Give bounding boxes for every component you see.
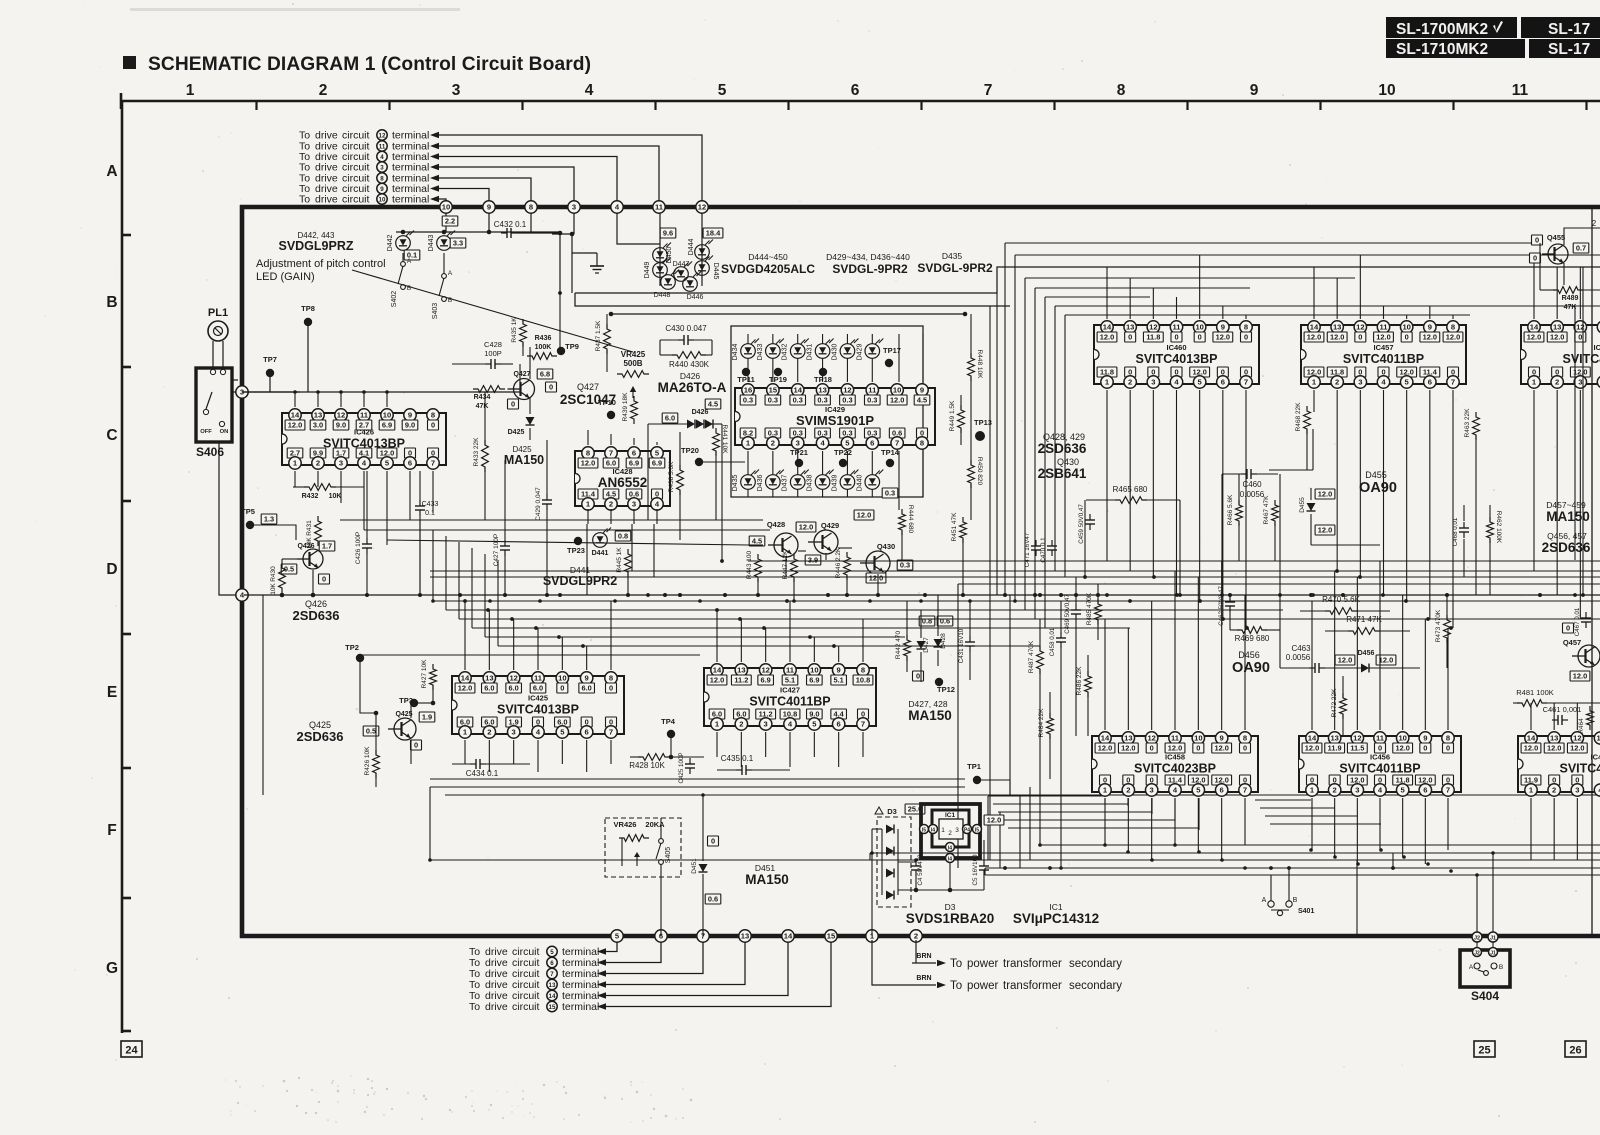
svg-text:F: F [107, 822, 116, 839]
svg-text:R430: R430 [270, 566, 277, 582]
wire [396, 231, 560, 233]
led D430 [840, 344, 855, 359]
test point TP7 [266, 369, 274, 377]
wire [1564, 228, 1600, 245]
svg-text:8: 8 [1446, 734, 1450, 743]
svg-text:D438: D438 [807, 475, 814, 492]
boxed value 6.8 [537, 369, 553, 379]
switch S401 [1268, 901, 1274, 907]
switch S406 [196, 368, 232, 442]
svg-text:0.3: 0.3 [743, 396, 753, 405]
wire [1581, 289, 1600, 291]
resistor R450 820 [968, 460, 975, 488]
svg-text:TP13: TP13 [974, 418, 992, 427]
junction dots bottom nest [1103, 843, 1107, 847]
svg-text:14: 14 [1103, 323, 1112, 332]
svg-text:25: 25 [1478, 1045, 1490, 1057]
model label box SL-17 right [1521, 17, 1600, 38]
led D449 [653, 263, 668, 278]
led D447 [674, 267, 689, 282]
svg-text:SVIMS1901P: SVIMS1901P [796, 413, 874, 428]
svg-text:8: 8 [1117, 82, 1126, 99]
svg-text:D3: D3 [887, 807, 897, 816]
svg-text:8: 8 [609, 674, 613, 683]
svg-text:S404: S404 [1471, 989, 1499, 1003]
svg-text:12.0: 12.0 [1318, 526, 1332, 535]
svg-text:12.0: 12.0 [458, 684, 472, 693]
svg-text:0: 0 [549, 383, 553, 392]
svg-text:8: 8 [529, 203, 533, 212]
svg-text:0: 0 [1358, 333, 1362, 342]
svg-text:To: To [299, 194, 310, 206]
svg-text:11: 11 [1172, 323, 1181, 332]
svg-text:R428 10K: R428 10K [629, 761, 665, 770]
svg-text:0: 0 [1535, 236, 1539, 245]
svg-text:C469 50V0,47: C469 50V0,47 [1064, 594, 1071, 634]
capacitor C425 100P [689, 758, 691, 764]
svg-text:3: 3 [1575, 786, 1579, 795]
wire bus [575, 293, 1010, 306]
wire [617, 213, 660, 244]
wire bus [958, 583, 1600, 585]
wire [702, 795, 704, 861]
svg-text:6.0: 6.0 [509, 684, 519, 693]
board border top [240, 205, 1600, 210]
svg-text:R469 680: R469 680 [1235, 634, 1270, 643]
svg-text:C433: C433 [422, 501, 439, 508]
svg-text:TP8: TP8 [301, 304, 315, 313]
svg-text:2: 2 [1335, 378, 1339, 387]
diode D3-3 [886, 869, 894, 878]
wire riser [458, 542, 460, 619]
capacitor C426 100P [366, 538, 368, 544]
wire bus [870, 852, 1600, 854]
svg-text:9: 9 [1250, 82, 1259, 99]
capacitor C468 0.01 [1463, 522, 1465, 528]
wire [1489, 539, 1491, 595]
svg-text:24: 24 [125, 1045, 138, 1057]
capacitor C434 0.1 [470, 763, 476, 765]
svg-text:terminal: terminal [562, 1001, 599, 1013]
svg-text:D442: D442 [387, 235, 394, 252]
svg-text:0.3: 0.3 [885, 489, 895, 498]
svg-text:S402: S402 [391, 291, 398, 307]
left ruler tick [122, 500, 131, 503]
svg-text:7: 7 [895, 439, 899, 448]
svg-text:12.0: 12.0 [1098, 744, 1112, 753]
svg-text:SVDGL-9PR2: SVDGL-9PR2 [917, 261, 993, 275]
svg-text:PL1: PL1 [208, 307, 228, 319]
svg-text:6.0: 6.0 [665, 414, 675, 423]
svg-text:I4: I4 [931, 828, 935, 834]
svg-text:0: 0 [1566, 624, 1570, 633]
wire [797, 451, 799, 475]
wire [445, 213, 447, 232]
svg-text:SL-1710MK2: SL-1710MK2 [1396, 41, 1488, 58]
svg-text:R437 1.5K: R437 1.5K [595, 320, 602, 351]
ruler minor tick [787, 101, 789, 110]
node 4 on left border [236, 589, 248, 601]
svg-text:SVDGL9PRZ: SVDGL9PRZ [278, 239, 353, 253]
pointer line [352, 270, 633, 352]
svg-text:3: 3 [1150, 786, 1154, 795]
svg-text:terminal: terminal [392, 194, 429, 206]
led D438 [815, 475, 830, 490]
resistor R472 22K [1340, 693, 1347, 719]
svg-text:3.9: 3.9 [808, 556, 818, 565]
resistor R463 22K [1473, 412, 1480, 440]
boxed value 12.0 [1315, 525, 1335, 535]
ruler minor tick [1053, 101, 1055, 110]
svg-text:SCHEMATIC DIAGRAM 1 (Control C: SCHEMATIC DIAGRAM 1 (Control Circuit Boa… [148, 54, 591, 75]
svg-text:C: C [106, 427, 117, 444]
diode D3-4 [886, 891, 894, 900]
svg-text:0.8: 0.8 [922, 617, 932, 626]
svg-text:0.3: 0.3 [842, 396, 852, 405]
svg-text:3: 3 [796, 439, 800, 448]
boxed value 0.8 [919, 616, 935, 626]
svg-text:I5: I5 [975, 828, 979, 834]
wire [1545, 702, 1600, 704]
wire bus [985, 874, 1600, 876]
wire riser [432, 530, 434, 601]
wire [294, 471, 296, 487]
svg-text:0: 0 [322, 575, 326, 584]
svg-text:SVITC4023BP: SVITC4023BP [1134, 762, 1216, 776]
svg-text:ON: ON [220, 429, 229, 435]
svg-text:C467 0,01: C467 0,01 [1574, 607, 1581, 636]
transistor Q427 [514, 379, 535, 400]
capacitor C433 0.1 [419, 500, 421, 506]
svg-text:drive: drive [485, 1001, 508, 1013]
svg-text:9.0: 9.0 [336, 421, 346, 430]
svg-text:C434 0.1: C434 0.1 [466, 769, 499, 778]
svg-text:6: 6 [408, 459, 412, 468]
svg-text:0: 0 [1244, 333, 1248, 342]
led D448 [661, 275, 676, 290]
svg-text:14: 14 [1530, 323, 1539, 332]
wire L-connectors below IC456 [1255, 799, 1311, 801]
wire [606, 938, 617, 952]
svg-text:R481 100K: R481 100K [1516, 688, 1554, 697]
wire [517, 233, 560, 293]
svg-text:D436: D436 [757, 475, 764, 492]
wire [1104, 619, 1106, 730]
svg-text:R432: R432 [302, 493, 319, 500]
svg-text:B: B [448, 297, 452, 304]
led D445 [695, 261, 710, 276]
svg-text:1.9: 1.9 [422, 713, 432, 722]
ruler minor tick [1452, 101, 1454, 110]
svg-text:transformer: transformer [1003, 958, 1062, 970]
svg-text:R443 100: R443 100 [746, 551, 753, 580]
wire [772, 451, 774, 475]
capacitor C469 50V0.47 [1075, 604, 1077, 610]
svg-text:14: 14 [784, 932, 793, 941]
svg-text:B: B [1499, 964, 1503, 971]
svg-text:2: 2 [1552, 786, 1556, 795]
wire [606, 938, 661, 963]
svg-text:G: G [106, 960, 118, 977]
wire [1392, 853, 1394, 868]
svg-text:6: 6 [837, 720, 841, 729]
transistor Q425 [394, 718, 416, 740]
svg-text:13: 13 [1550, 734, 1558, 743]
svg-text:R486 22K: R486 22K [1076, 666, 1083, 696]
svg-text:15: 15 [827, 932, 836, 941]
svg-text:10: 10 [1398, 734, 1406, 743]
svg-text:Q427: Q427 [513, 371, 530, 378]
wire bus [1035, 287, 1250, 289]
wire bus [433, 600, 1600, 602]
svg-text:A: A [407, 258, 412, 265]
svg-text:R431: R431 [306, 520, 313, 536]
diode bridge D3 dashed box [877, 817, 911, 907]
led D437 [790, 475, 805, 490]
boxed value 0.5 [363, 726, 379, 736]
wire [587, 430, 589, 445]
svg-text:12: 12 [379, 133, 386, 140]
resistor R445 1K [625, 549, 632, 577]
wire [606, 938, 703, 974]
wire [1574, 306, 1576, 560]
svg-text:6: 6 [585, 728, 589, 737]
left ruler tick [122, 633, 131, 636]
svg-text:3: 3 [1358, 378, 1362, 387]
svg-text:IC427: IC427 [780, 686, 800, 695]
svg-text:26: 26 [1569, 1045, 1581, 1057]
wire [906, 601, 908, 640]
svg-text:11.9: 11.9 [1328, 744, 1342, 753]
test point TP10 [607, 411, 615, 419]
svg-text:Q455: Q455 [1547, 233, 1565, 242]
svg-text:A: A [106, 163, 117, 180]
svg-text:7: 7 [431, 459, 435, 468]
svg-text:S401: S401 [1298, 908, 1314, 915]
IC425 SVITC4013BP [452, 676, 624, 734]
wire [871, 334, 873, 344]
wire [660, 339, 678, 341]
svg-text:0: 0 [1446, 744, 1450, 753]
svg-text:SVITC4013BP: SVITC4013BP [1136, 352, 1218, 366]
test point TP4 [667, 730, 675, 738]
svg-text:0.0056: 0.0056 [1286, 653, 1311, 662]
svg-text:14: 14 [793, 386, 802, 395]
svg-text:2: 2 [319, 82, 328, 99]
wire [418, 702, 433, 704]
svg-text:10K: 10K [270, 583, 277, 595]
diode D456 [1361, 664, 1369, 673]
svg-text:9: 9 [837, 666, 841, 675]
wire [232, 391, 236, 393]
wire [630, 756, 641, 758]
left ruler line [121, 101, 124, 1033]
wire bus [748, 560, 1600, 562]
ruler minor tick [654, 101, 656, 110]
svg-text:12: 12 [698, 203, 706, 212]
svg-text:C430 0.047: C430 0.047 [665, 324, 707, 333]
svg-text:MA150: MA150 [745, 872, 789, 887]
svg-text:R466 5.6K: R466 5.6K [1227, 494, 1234, 525]
resistor R462 100K [1487, 517, 1494, 543]
diode D425 [526, 417, 535, 425]
IC460 SVITC4013BP [1094, 325, 1259, 384]
ruler minor tick [920, 101, 922, 110]
svg-text:SL-17: SL-17 [1548, 41, 1590, 58]
svg-text:D440: D440 [856, 475, 863, 492]
svg-text:0: 0 [609, 684, 613, 693]
svg-text:11.8: 11.8 [1146, 333, 1160, 342]
svg-text:IC455: IC455 [1590, 753, 1600, 762]
svg-text:R465 680: R465 680 [1113, 485, 1148, 494]
IC1 SVIuPC14312 nested frame [921, 804, 980, 858]
svg-text:drive: drive [315, 194, 338, 206]
boxed value 12.0 [1570, 671, 1590, 681]
wire [846, 451, 848, 475]
svg-text:TP4: TP4 [661, 717, 676, 726]
svg-text:18.4: 18.4 [706, 229, 721, 238]
resistor R439 18K [631, 396, 638, 424]
ruler minor tick [388, 101, 390, 110]
svg-text:R489: R489 [1562, 295, 1579, 302]
svg-text:0.8: 0.8 [618, 532, 628, 541]
svg-text:6.9: 6.9 [809, 676, 819, 685]
svg-text:12.0: 12.0 [1121, 744, 1135, 753]
svg-text:C435 0.1: C435 0.1 [721, 754, 754, 763]
wire [439, 157, 617, 206]
svg-text:0.7: 0.7 [1576, 244, 1586, 253]
svg-text:SVITC4011BP: SVITC4011BP [1343, 352, 1424, 366]
svg-text:11.2: 11.2 [734, 676, 748, 685]
svg-text:9.0: 9.0 [405, 421, 415, 430]
wire [282, 558, 297, 560]
resistor R466 5.6K [1236, 500, 1243, 526]
boxed value 0.3 [897, 560, 913, 570]
svg-text:9: 9 [585, 674, 589, 683]
svg-text:11: 11 [655, 203, 664, 212]
svg-text:16: 16 [744, 386, 752, 395]
wire [1229, 612, 1231, 630]
resistor R451 47K [960, 517, 967, 543]
svg-text:C426 100P: C426 100P [355, 532, 362, 565]
IC1 pins [920, 825, 929, 834]
wire [606, 938, 831, 1007]
svg-text:D456: D456 [1358, 650, 1375, 657]
capacitor C471 16V47 [1035, 540, 1037, 546]
svg-text:D455: D455 [1365, 470, 1387, 480]
svg-text:R468 22K: R468 22K [1295, 402, 1302, 432]
svg-text:BRN: BRN [916, 975, 931, 982]
svg-text:15: 15 [769, 386, 778, 395]
svg-text:12: 12 [1356, 323, 1364, 332]
svg-text:4.5: 4.5 [708, 400, 718, 409]
svg-text:TP3: TP3 [399, 696, 413, 705]
svg-text:6: 6 [1221, 378, 1225, 387]
junction dots on bus 595 [280, 593, 284, 597]
left ruler tick [122, 234, 131, 237]
svg-text:VR426: VR426 [614, 820, 637, 829]
capacitor C458 0.01 [1060, 632, 1062, 638]
IC458 SVITC4023BP [1092, 736, 1258, 792]
svg-text:0: 0 [916, 672, 920, 681]
led D433 [766, 344, 781, 359]
wire [1238, 522, 1240, 561]
resistor R489 47K [1553, 287, 1583, 294]
wire [1311, 601, 1313, 730]
svg-text:0.3: 0.3 [793, 396, 803, 405]
svg-text:R471 47K: R471 47K [1346, 615, 1382, 624]
resistor R440 430K [672, 352, 706, 359]
svg-text:13: 13 [737, 666, 745, 675]
svg-text:SVIμPC14312: SVIμPC14312 [1013, 911, 1099, 926]
board border bottom [240, 934, 1600, 939]
resistor R487 470K [1037, 646, 1044, 674]
wire riser [471, 548, 473, 628]
svg-text:10: 10 [383, 411, 391, 420]
test point TP13 [975, 431, 985, 441]
resistor R464 100K [1587, 706, 1594, 730]
svg-text:10: 10 [379, 197, 386, 204]
wire [439, 167, 574, 205]
svg-text:3: 3 [572, 203, 576, 212]
svg-text:0: 0 [511, 400, 515, 409]
wire bus [472, 627, 1130, 629]
svg-text:0: 0 [1128, 333, 1132, 342]
svg-text:SVITC4011BP: SVITC4011BP [1339, 762, 1420, 776]
svg-text:R447 12K: R447 12K [782, 550, 789, 580]
svg-text:OFF: OFF [200, 429, 212, 435]
svg-text:7: 7 [984, 82, 993, 99]
boxed value 0 [708, 836, 719, 846]
svg-text:J2: J2 [1474, 951, 1480, 957]
svg-text:12.0: 12.0 [1423, 333, 1437, 342]
wire [1222, 473, 1241, 475]
svg-text:20KA: 20KA [645, 820, 665, 829]
test point TP2 [356, 654, 364, 662]
svg-text:C463: C463 [1291, 644, 1311, 653]
svg-text:12.0: 12.0 [1524, 744, 1538, 753]
svg-text:TP5: TP5 [241, 507, 255, 516]
wire [659, 213, 661, 286]
transistor Q430 [866, 551, 890, 575]
svg-text:13: 13 [1330, 734, 1338, 743]
svg-text:9: 9 [920, 386, 924, 395]
svg-text:BRN: BRN [916, 953, 931, 960]
svg-text:14: 14 [1308, 734, 1317, 743]
transistor Q426 [303, 549, 323, 569]
svg-text:6: 6 [851, 82, 860, 99]
svg-text:Q430: Q430 [877, 542, 895, 551]
IC428 AN6552 [575, 451, 670, 506]
transistor Q428 [774, 533, 798, 557]
wire [522, 320, 524, 324]
resistor R441 10K [713, 428, 720, 456]
svg-text:R433 22K: R433 22K [473, 437, 480, 467]
capacitor C459 50V0,47 [1089, 514, 1091, 520]
svg-text:R485 470K: R485 470K [1086, 592, 1093, 625]
svg-text:6.0: 6.0 [484, 684, 494, 693]
wire bus [985, 867, 1600, 869]
svg-text:0.3: 0.3 [900, 561, 910, 570]
boxed value 0 [508, 399, 519, 409]
wire [573, 213, 575, 234]
boxed value 0 [1532, 235, 1543, 245]
svg-text:10: 10 [1378, 82, 1395, 99]
svg-text:R462 100K: R462 100K [1495, 511, 1502, 544]
svg-text:3: 3 [1151, 378, 1155, 387]
boxed value 9.6 [660, 228, 676, 238]
svg-text:IC426: IC426 [354, 428, 374, 437]
